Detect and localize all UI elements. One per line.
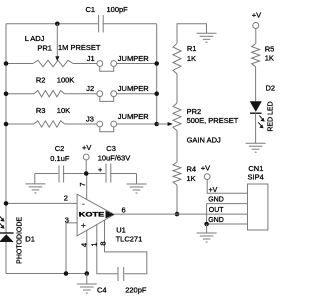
wire: PR2 wiper horizontal	[157, 123, 169, 125]
jumper J1	[97, 61, 103, 67]
svg-text:R1: R1	[187, 44, 197, 53]
light arrows D1	[0, 215, 2, 227]
svg-text:+: +	[98, 165, 103, 174]
jumper J3	[97, 121, 103, 127]
svg-text:SIP4: SIP4	[248, 173, 264, 182]
svg-text:+V: +V	[201, 164, 210, 173]
svg-text:JUMPER: JUMPER	[118, 54, 149, 63]
node: bus dot PR1	[4, 61, 9, 66]
svg-text:PR2: PR2	[187, 107, 202, 116]
resistor R5 1K	[252, 44, 260, 67]
wire: pin 8	[105, 220, 147, 274]
svg-text:1K: 1K	[187, 54, 196, 63]
svg-text:JUMPER: JUMPER	[118, 84, 149, 93]
svg-text:+V: +V	[209, 187, 218, 194]
svg-text:D2: D2	[266, 84, 276, 93]
svg-text:1K: 1K	[187, 174, 196, 183]
svg-text:R3: R3	[36, 106, 46, 115]
svg-text:KOTE: KOTE	[79, 213, 105, 219]
ground (C3 right)	[136, 174, 138, 185]
svg-text:J3: J3	[86, 114, 94, 123]
svg-text:1M PRESET: 1M PRESET	[58, 43, 101, 52]
wire: top horizontal rail from left bus to jumper bus	[6, 23, 98, 25]
rail: C2 / +V / C3	[35, 173, 58, 175]
svg-text:U1: U1	[116, 226, 126, 235]
ground (C2 left)	[34, 174, 36, 184]
wire: PR2 to R4	[176, 131, 178, 162]
svg-text:GAIN ADJ: GAIN ADJ	[187, 135, 221, 144]
wire: bottom ground rail	[6, 273, 87, 275]
wire: pin 2 input	[6, 202, 77, 204]
PR2 wiper arrowhead	[168, 122, 173, 126]
wire: pin 6 output	[114, 213, 247, 215]
ground (R1 top)	[197, 33, 217, 42]
wire: R4 bottom to OUT line	[176, 185, 178, 214]
wire: GND pin 2	[207, 203, 248, 205]
svg-text:D1: D1	[25, 235, 35, 244]
svg-text:3: 3	[65, 215, 69, 224]
svg-text:J2: J2	[86, 84, 94, 93]
op-amp U1 TLC271	[77, 194, 114, 236]
svg-text:TLC271: TLC271	[116, 235, 143, 244]
jumper J2	[97, 91, 103, 97]
terminal +V (supply)	[83, 154, 89, 160]
svg-text:CN1: CN1	[248, 164, 263, 173]
wire: pin 4 to ground rail	[86, 230, 88, 273]
LED D2	[250, 101, 262, 112]
node: R4/OUT junction	[175, 212, 180, 217]
wire: left bus vertical	[5, 24, 7, 233]
wire: pin 7 supply	[86, 174, 88, 200]
capacitor C1	[98, 15, 100, 32]
svg-text:2: 2	[64, 194, 68, 203]
svg-text:J1: J1	[87, 54, 95, 63]
resistor R1 1K	[173, 43, 181, 74]
resistor R2 100K	[6, 93, 34, 95]
light arrows D2	[258, 116, 263, 127]
svg-text:+V: +V	[82, 143, 91, 152]
svg-text:220pF: 220pF	[125, 286, 147, 295]
svg-text:100pF: 100pF	[107, 5, 129, 14]
wire: GND pin 4	[207, 223, 248, 225]
svg-text:6: 6	[122, 205, 126, 214]
svg-text:OUT: OUT	[209, 207, 225, 214]
svg-text:+V: +V	[252, 10, 261, 19]
svg-text:8: 8	[99, 241, 108, 245]
svg-text:JUMPER: JUMPER	[118, 112, 149, 121]
svg-text:7: 7	[78, 182, 87, 186]
minus input mark	[82, 203, 84, 205]
svg-text:0.1uF: 0.1uF	[50, 154, 70, 163]
wire: PR1 wiper vertical	[56, 24, 58, 57]
photodiode D1	[0, 232, 14, 234]
ground (D2)	[246, 143, 266, 152]
svg-text:10K: 10K	[57, 106, 70, 115]
node: junction top wire / PR1 wiper	[55, 22, 60, 27]
potentiometer PR2 500E PRESET	[173, 103, 181, 131]
wire: R1 top lead to ground	[177, 24, 207, 44]
wire: pin 3 input	[66, 223, 77, 274]
svg-text:R5: R5	[265, 44, 275, 53]
svg-text:C3: C3	[106, 144, 116, 153]
PR1 wiper arrowhead	[55, 56, 59, 61]
wire: R1 to PR2	[176, 74, 178, 103]
capacitor C3 10uF/63V	[105, 164, 107, 183]
svg-text:C2: C2	[55, 144, 65, 153]
wire: R5 to LED	[255, 67, 257, 102]
svg-text:4: 4	[80, 243, 89, 247]
svg-text:R4: R4	[187, 165, 197, 174]
ground (CN1)	[206, 224, 208, 233]
svg-text:500E, PRESET: 500E, PRESET	[187, 116, 239, 125]
terminal +V (CN1)	[204, 174, 210, 180]
node: bus dot R2	[4, 91, 9, 96]
connector CN1 SIP4	[248, 184, 268, 230]
resistor R3 10K	[6, 123, 34, 125]
node: bus dots	[154, 61, 159, 66]
capacitor C2 0.1uF	[58, 166, 60, 183]
plus input mark	[81, 223, 85, 227]
wire: LED to ground	[255, 113, 257, 143]
svg-text:GND: GND	[208, 217, 224, 224]
resistor R4 1K	[173, 162, 181, 185]
terminal +V (top right)	[253, 23, 259, 29]
wire: pin 1	[97, 225, 118, 274]
svg-text:L ADJ: L ADJ	[25, 34, 45, 43]
svg-text:RED LED: RED LED	[267, 101, 274, 131]
potentiometer PR1 1M PRESET	[6, 63, 33, 65]
svg-text:PR1: PR1	[37, 43, 52, 52]
svg-text:10uF/63V: 10uF/63V	[98, 154, 131, 163]
capacitor C4 220pF	[117, 267, 119, 281]
svg-text:1: 1	[90, 242, 99, 246]
wire: jumper bus vertical	[156, 24, 158, 124]
node: bus dot R3	[4, 122, 9, 127]
svg-text:GND: GND	[208, 197, 224, 204]
svg-text:1K: 1K	[265, 54, 274, 63]
svg-text:C1: C1	[86, 5, 96, 14]
svg-text:R2: R2	[36, 76, 46, 85]
ground (op-amp)	[86, 274, 88, 285]
svg-text:C4: C4	[97, 286, 107, 295]
svg-text:100K: 100K	[57, 76, 75, 85]
svg-text:PHOTODIODE: PHOTODIODE	[16, 217, 23, 264]
